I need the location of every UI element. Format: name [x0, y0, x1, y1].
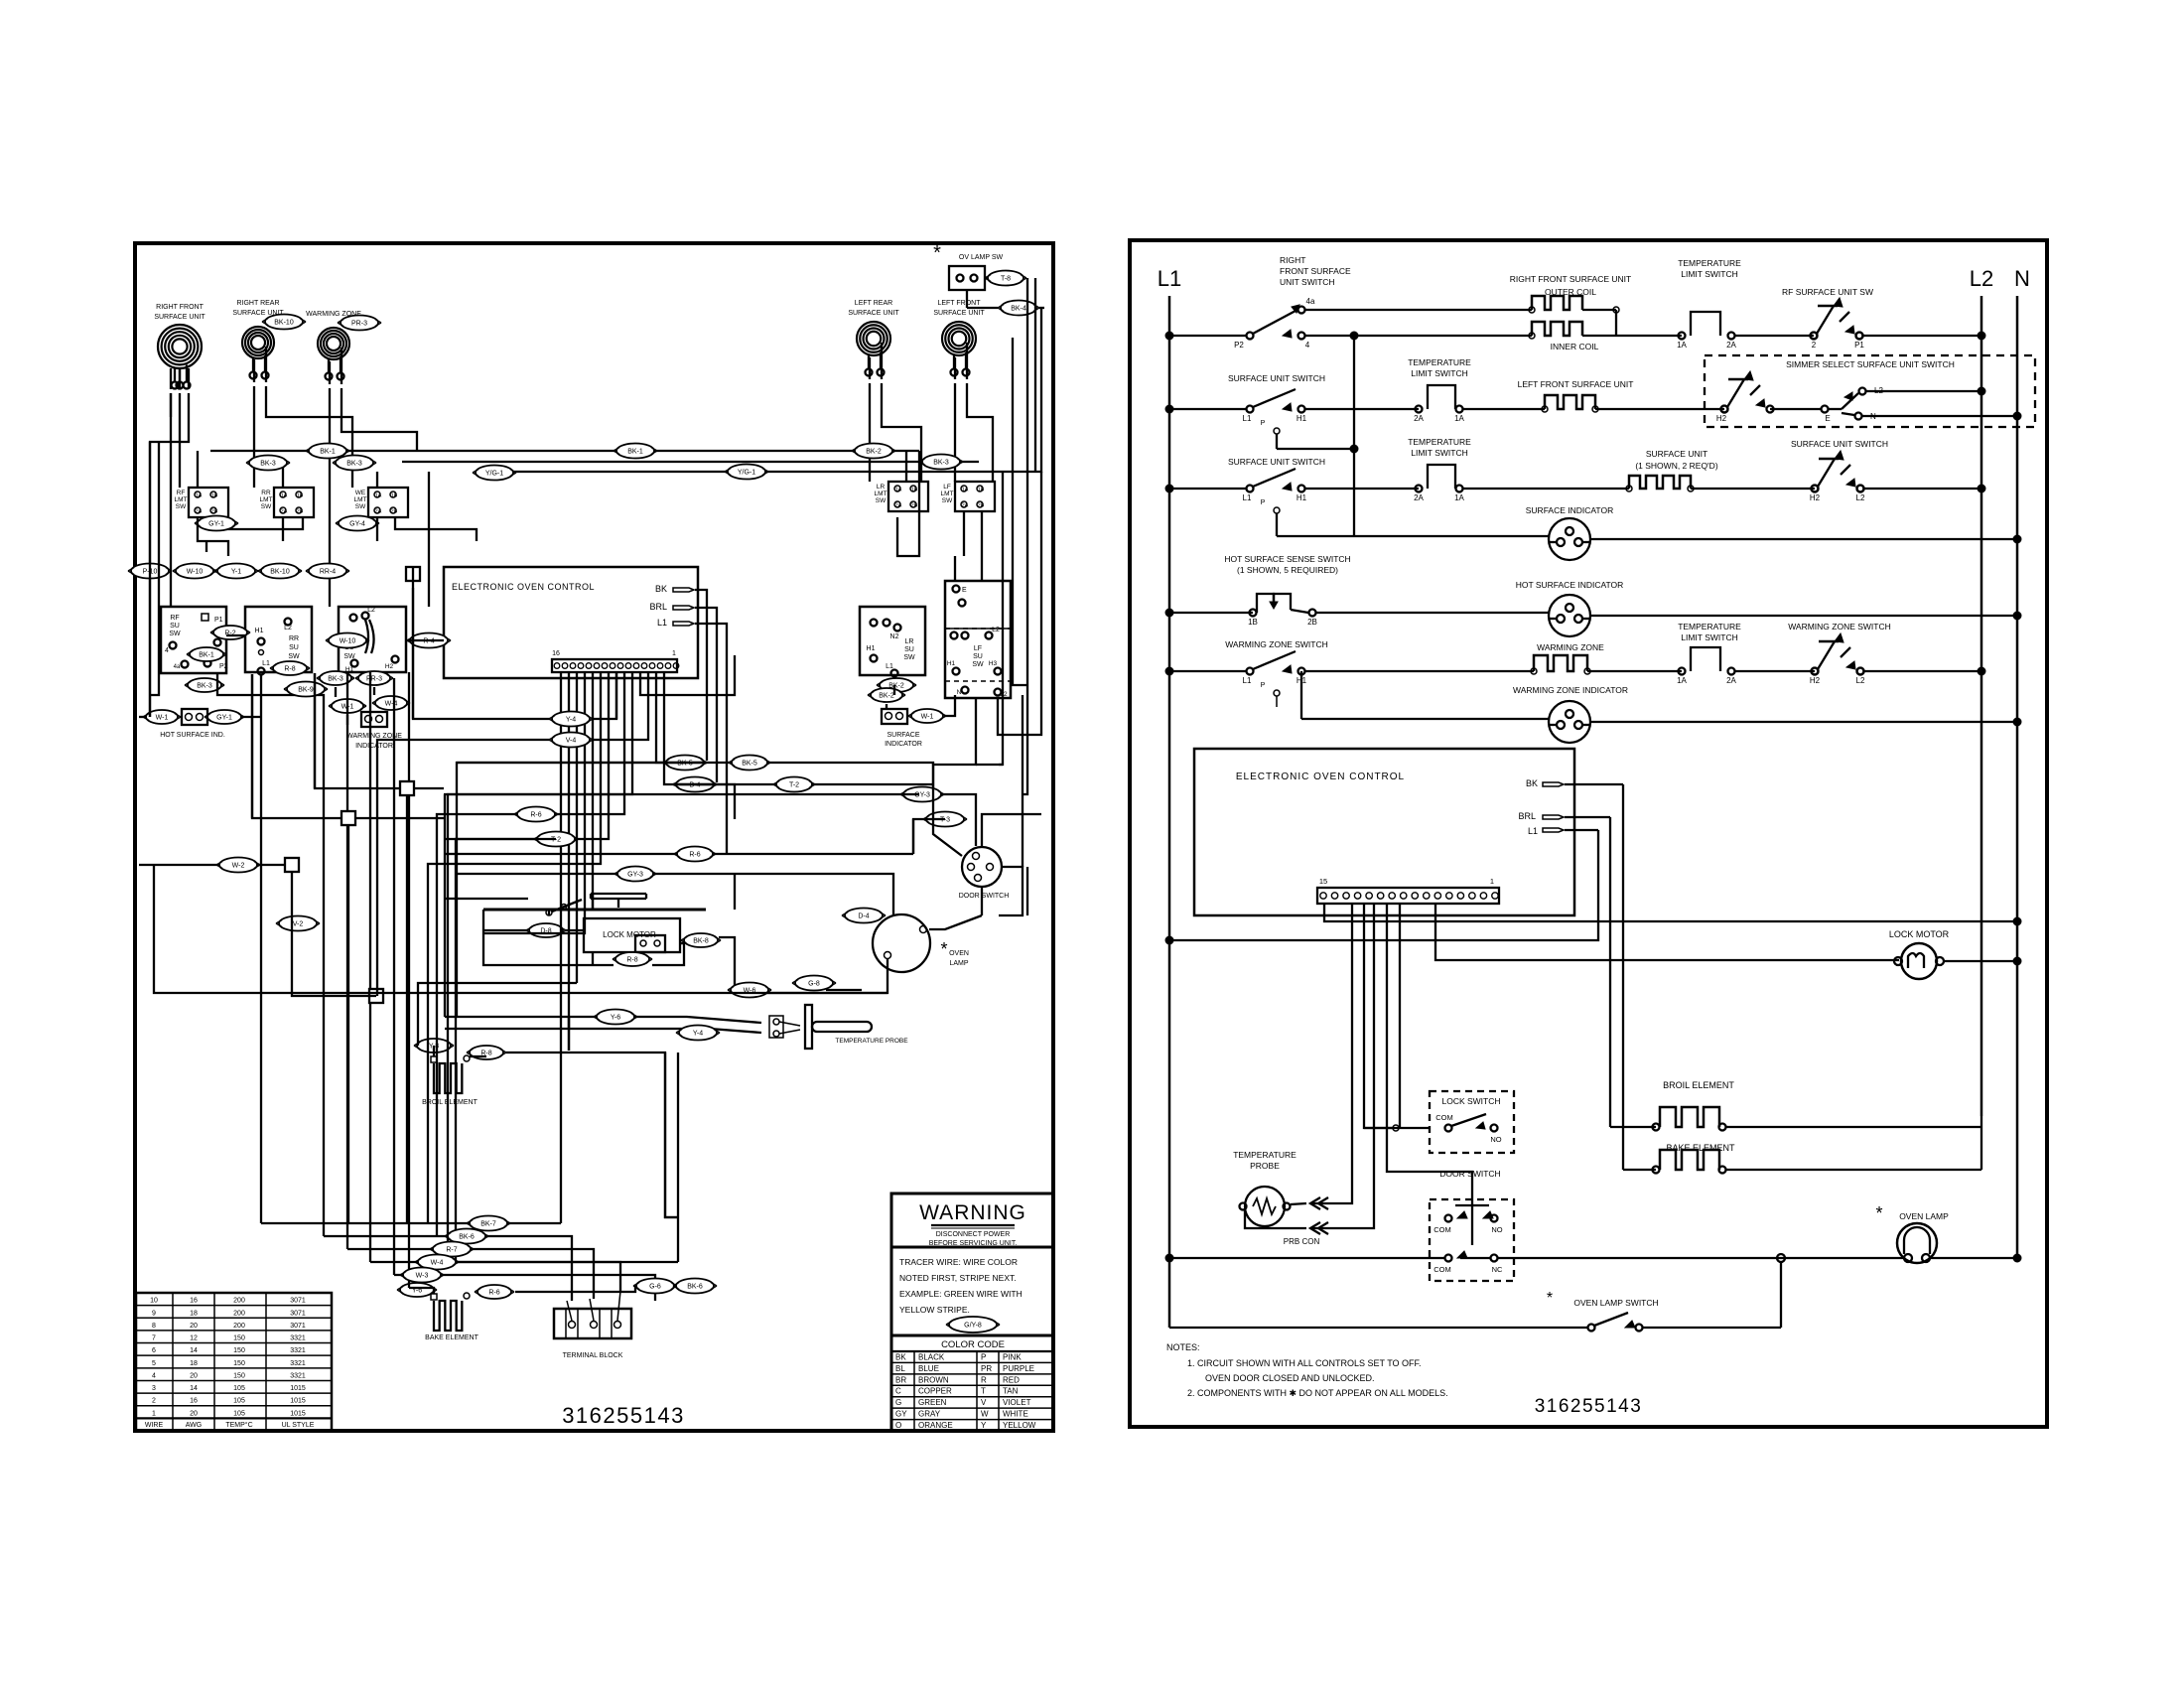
svg-text:1: 1	[1490, 877, 1494, 886]
svg-text:GY: GY	[895, 1410, 907, 1419]
svg-text:TERMINAL BLOCK: TERMINAL BLOCK	[563, 1352, 623, 1359]
svg-text:OV LAMP SW: OV LAMP SW	[959, 254, 1004, 261]
svg-text:105: 105	[233, 1410, 245, 1417]
svg-text:L1: L1	[262, 660, 270, 667]
svg-text:NO: NO	[1491, 1225, 1502, 1234]
svg-text:SURFACE UNIT SWITCH: SURFACE UNIT SWITCH	[1228, 457, 1325, 467]
svg-text:LMT: LMT	[354, 496, 367, 503]
svg-text:RF: RF	[170, 615, 179, 622]
svg-text:BK-2: BK-2	[866, 449, 882, 456]
svg-text:RIGHT FRONT: RIGHT FRONT	[156, 304, 204, 311]
svg-text:4a: 4a	[1306, 297, 1315, 306]
svg-text:1B: 1B	[391, 493, 398, 499]
svg-text:R-6: R-6	[689, 852, 700, 859]
svg-text:L2: L2	[1856, 676, 1865, 685]
svg-text:OVEN DOOR CLOSED AND UNLOCKED.: OVEN DOOR CLOSED AND UNLOCKED.	[1205, 1373, 1375, 1383]
svg-text:2B: 2B	[911, 503, 918, 509]
svg-text:BLACK: BLACK	[918, 1352, 945, 1361]
svg-text:V-2: V-2	[293, 921, 304, 928]
svg-text:O: O	[895, 1421, 901, 1430]
svg-text:HOT SURFACE SENSE SWITCH: HOT SURFACE SENSE SWITCH	[1224, 554, 1350, 564]
svg-text:N: N	[2014, 266, 2030, 291]
svg-text:TEMPERATURE: TEMPERATURE	[1678, 622, 1741, 631]
svg-text:LMT: LMT	[875, 491, 887, 497]
svg-text:1A: 1A	[1454, 493, 1464, 502]
svg-text:OVEN LAMP SWITCH: OVEN LAMP SWITCH	[1573, 1298, 1658, 1308]
svg-text:COM: COM	[1433, 1225, 1451, 1234]
svg-text:SURFACE UNIT: SURFACE UNIT	[154, 314, 205, 321]
svg-text:L1: L1	[1243, 676, 1252, 685]
svg-text:RF: RF	[177, 490, 186, 496]
svg-text:EXAMPLE: GREEN WIRE WITH: EXAMPLE: GREEN WIRE WITH	[899, 1289, 1023, 1299]
svg-text:1A: 1A	[962, 488, 969, 493]
svg-text:SW: SW	[942, 497, 953, 504]
svg-text:1B: 1B	[978, 488, 985, 493]
svg-text:1B: 1B	[297, 493, 304, 499]
svg-text:HOT SURFACE IND.: HOT SURFACE IND.	[160, 732, 225, 739]
svg-text:Y/G-1: Y/G-1	[485, 471, 503, 478]
svg-text:20: 20	[190, 1410, 198, 1417]
svg-text:R-7: R-7	[446, 1247, 457, 1254]
svg-text:H1: H1	[345, 666, 354, 673]
svg-text:WHITE: WHITE	[1003, 1410, 1028, 1419]
svg-text:BK-8: BK-8	[693, 938, 709, 945]
svg-text:2: 2	[152, 1398, 156, 1405]
svg-text:150: 150	[233, 1360, 245, 1367]
svg-text:3321: 3321	[290, 1335, 306, 1342]
svg-text:2A: 2A	[962, 503, 969, 509]
svg-text:8: 8	[152, 1323, 156, 1330]
svg-text:1A: 1A	[196, 493, 203, 499]
svg-text:2A: 2A	[895, 503, 902, 509]
svg-text:SURFACE UNIT: SURFACE UNIT	[1646, 449, 1707, 459]
svg-text:1B: 1B	[1248, 618, 1258, 627]
svg-text:H3: H3	[989, 660, 998, 667]
svg-text:G-8: G-8	[808, 981, 820, 988]
svg-text:16: 16	[552, 650, 560, 657]
svg-text:*: *	[933, 242, 941, 264]
svg-text:D-4: D-4	[858, 913, 869, 920]
svg-text:150: 150	[233, 1335, 245, 1342]
svg-text:2A: 2A	[1726, 341, 1736, 350]
svg-text:G: G	[895, 1398, 901, 1407]
svg-text:150: 150	[233, 1347, 245, 1354]
svg-text:BL: BL	[895, 1364, 905, 1373]
svg-text:L1: L1	[1158, 266, 1181, 291]
svg-text:LF: LF	[943, 484, 951, 491]
svg-text:AWG: AWG	[186, 1422, 202, 1429]
svg-text:1A: 1A	[1677, 341, 1687, 350]
svg-text:GY-1: GY-1	[208, 521, 224, 528]
svg-text:1A: 1A	[895, 488, 902, 493]
svg-text:COM: COM	[1435, 1113, 1453, 1122]
svg-text:WARMING ZONE: WARMING ZONE	[1537, 642, 1604, 652]
svg-text:SURFACE UNIT: SURFACE UNIT	[848, 310, 899, 317]
svg-text:BK-1: BK-1	[199, 652, 214, 659]
svg-text:BK: BK	[1526, 778, 1538, 788]
svg-text:LAMP: LAMP	[949, 960, 968, 967]
svg-text:NO: NO	[1490, 1135, 1501, 1144]
svg-text:20: 20	[190, 1372, 198, 1379]
svg-text:12: 12	[190, 1335, 198, 1342]
svg-text:SW: SW	[288, 653, 300, 660]
svg-text:SW: SW	[261, 503, 272, 510]
svg-text:T-8: T-8	[1001, 276, 1011, 283]
svg-text:V-4: V-4	[566, 738, 577, 745]
svg-text:16: 16	[190, 1298, 198, 1305]
svg-text:SW: SW	[355, 503, 366, 510]
svg-text:4: 4	[1305, 341, 1310, 350]
svg-text:H2: H2	[1810, 493, 1821, 502]
svg-text:H1: H1	[1297, 493, 1307, 502]
svg-text:(1 SHOWN, 5 REQUIRED): (1 SHOWN, 5 REQUIRED)	[1237, 565, 1338, 575]
svg-text:6: 6	[152, 1347, 156, 1354]
svg-text:TEMP°C: TEMP°C	[225, 1421, 252, 1429]
svg-text:SURFACE UNIT: SURFACE UNIT	[933, 310, 985, 317]
svg-text:SURFACE UNIT SWITCH: SURFACE UNIT SWITCH	[1228, 373, 1325, 383]
svg-text:GY-1: GY-1	[216, 715, 232, 722]
svg-text:LOCK MOTOR: LOCK MOTOR	[1889, 929, 1950, 939]
svg-text:LEFT FRONT SURFACE UNIT: LEFT FRONT SURFACE UNIT	[1518, 379, 1634, 389]
svg-text:1: 1	[672, 650, 676, 657]
svg-text:T: T	[981, 1387, 986, 1396]
svg-text:BK-1: BK-1	[627, 449, 643, 456]
svg-text:DOOR SWITCH: DOOR SWITCH	[1439, 1169, 1500, 1179]
svg-text:(1 SHOWN, 2 REQ'D): (1 SHOWN, 2 REQ'D)	[1635, 461, 1717, 471]
svg-text:LR: LR	[905, 638, 914, 645]
svg-text:WARMING ZONE INDICATOR: WARMING ZONE INDICATOR	[1513, 685, 1628, 695]
svg-text:N2: N2	[890, 633, 899, 640]
svg-text:L2: L2	[367, 607, 375, 614]
svg-text:2A: 2A	[375, 509, 382, 515]
svg-text:R-8: R-8	[626, 957, 637, 964]
svg-text:P2: P2	[1234, 341, 1244, 350]
svg-text:Y-6: Y-6	[611, 1015, 620, 1022]
svg-text:2B: 2B	[391, 509, 398, 515]
svg-text:*: *	[940, 939, 947, 959]
svg-text:P1: P1	[1854, 341, 1864, 350]
svg-text:3321: 3321	[290, 1347, 306, 1354]
svg-text:ELECTRONIC OVEN CONTROL: ELECTRONIC OVEN CONTROL	[1236, 772, 1405, 782]
svg-text:2A: 2A	[196, 509, 203, 515]
svg-text:P1: P1	[214, 617, 223, 624]
svg-text:RF SURFACE UNIT SW: RF SURFACE UNIT SW	[1782, 287, 1873, 297]
svg-text:P: P	[1261, 499, 1266, 506]
svg-text:LEFT FRONT: LEFT FRONT	[937, 300, 981, 307]
svg-text:2A: 2A	[1726, 676, 1736, 685]
svg-text:3071: 3071	[290, 1298, 306, 1305]
svg-text:P: P	[1261, 682, 1266, 689]
svg-text:SURFACE UNIT SWITCH: SURFACE UNIT SWITCH	[1791, 439, 1888, 449]
svg-text:TEMPERATURE PROBE: TEMPERATURE PROBE	[835, 1038, 908, 1045]
svg-text:Y/G-1: Y/G-1	[738, 470, 755, 477]
svg-text:BLUE: BLUE	[918, 1364, 939, 1373]
svg-text:RIGHT REAR: RIGHT REAR	[236, 300, 279, 307]
svg-text:Y-4: Y-4	[693, 1031, 703, 1038]
svg-text:E: E	[1825, 414, 1830, 423]
svg-text:R: R	[981, 1375, 987, 1384]
svg-text:P2: P2	[219, 663, 228, 670]
svg-text:TRACER WIRE: WIRE COLOR: TRACER WIRE: WIRE COLOR	[899, 1257, 1018, 1267]
svg-text:SU: SU	[973, 653, 983, 660]
svg-text:SW: SW	[972, 661, 984, 668]
svg-text:18: 18	[190, 1310, 198, 1317]
svg-text:R-6: R-6	[488, 1290, 499, 1297]
svg-text:RIGHT FRONT SURFACE UNIT: RIGHT FRONT SURFACE UNIT	[1510, 274, 1631, 284]
svg-text:INNER COIL: INNER COIL	[1551, 342, 1599, 351]
svg-text:BK-9: BK-9	[298, 687, 314, 694]
svg-text:SW: SW	[176, 503, 187, 510]
svg-text:LF: LF	[974, 645, 982, 652]
svg-text:W-4: W-4	[431, 1260, 444, 1267]
svg-text:1: 1	[152, 1410, 156, 1417]
svg-text:316255143: 316255143	[1535, 1396, 1643, 1417]
svg-text:H1: H1	[1297, 414, 1307, 423]
svg-text:1B: 1B	[911, 488, 918, 493]
svg-text:TEMPERATURE: TEMPERATURE	[1233, 1150, 1297, 1160]
svg-text:GREEN: GREEN	[918, 1398, 947, 1407]
svg-text:2B: 2B	[1307, 618, 1317, 627]
svg-text:RED: RED	[1003, 1375, 1020, 1384]
svg-text:G-6: G-6	[649, 1284, 661, 1291]
svg-text:H2: H2	[1810, 676, 1821, 685]
svg-text:PRB CON: PRB CON	[1284, 1237, 1320, 1246]
svg-text:H2: H2	[1716, 414, 1727, 423]
svg-text:H1: H1	[947, 660, 956, 667]
svg-text:BK-10: BK-10	[270, 569, 290, 576]
svg-text:1A: 1A	[1677, 676, 1687, 685]
svg-text:L1: L1	[1528, 826, 1538, 836]
svg-text:ELECTRONIC OVEN CONTROL: ELECTRONIC OVEN CONTROL	[452, 582, 595, 592]
svg-text:INDICATOR: INDICATOR	[355, 743, 393, 750]
svg-text:PR: PR	[981, 1364, 992, 1373]
svg-text:*: *	[1547, 1290, 1553, 1307]
svg-text:W-2: W-2	[232, 863, 245, 870]
svg-text:G/Y-8: G/Y-8	[964, 1323, 982, 1330]
svg-text:BROIL ELEMENT: BROIL ELEMENT	[1663, 1080, 1734, 1090]
svg-text:DISCONNECT POWER: DISCONNECT POWER	[936, 1231, 1011, 1238]
svg-text:BK-3: BK-3	[346, 461, 362, 468]
svg-text:OVEN: OVEN	[949, 950, 969, 957]
svg-text:NOTED FIRST, STRIPE NEXT.: NOTED FIRST, STRIPE NEXT.	[899, 1273, 1017, 1283]
svg-text:105: 105	[233, 1398, 245, 1405]
svg-text:3: 3	[152, 1385, 156, 1392]
svg-text:V: V	[981, 1398, 987, 1407]
svg-text:R-6: R-6	[530, 812, 541, 819]
svg-text:YELLOW: YELLOW	[1003, 1421, 1036, 1430]
svg-text:2B: 2B	[297, 509, 304, 515]
svg-text:105: 105	[233, 1385, 245, 1392]
svg-text:H2: H2	[385, 663, 394, 670]
svg-text:2B: 2B	[978, 503, 985, 509]
svg-text:3071: 3071	[290, 1310, 306, 1317]
svg-text:3321: 3321	[290, 1372, 306, 1379]
svg-text:PURPLE: PURPLE	[1003, 1364, 1034, 1373]
svg-text:RR: RR	[261, 490, 271, 496]
svg-text:200: 200	[233, 1323, 245, 1330]
svg-text:VIOLET: VIOLET	[1003, 1398, 1031, 1407]
svg-text:COLOR CODE: COLOR CODE	[941, 1339, 1005, 1350]
svg-text:1A: 1A	[281, 493, 288, 499]
svg-text:SURFACE INDICATOR: SURFACE INDICATOR	[1526, 505, 1613, 515]
svg-text:BK: BK	[895, 1352, 906, 1361]
svg-text:T-2: T-2	[789, 782, 799, 789]
svg-text:PROBE: PROBE	[1250, 1161, 1280, 1171]
svg-text:5: 5	[152, 1360, 156, 1367]
svg-text:14: 14	[190, 1385, 198, 1392]
svg-text:YELLOW STRIPE.: YELLOW STRIPE.	[899, 1305, 970, 1315]
svg-text:LIMIT SWITCH: LIMIT SWITCH	[1411, 368, 1467, 378]
svg-text:L2: L2	[1970, 266, 1993, 291]
svg-text:LMT: LMT	[941, 491, 954, 497]
svg-text:W-10: W-10	[187, 569, 204, 576]
svg-text:COM: COM	[1433, 1265, 1451, 1274]
svg-text:BK-2: BK-2	[879, 693, 894, 700]
svg-text:UL STYLE: UL STYLE	[282, 1422, 315, 1429]
svg-text:10: 10	[150, 1298, 158, 1305]
svg-text:BK-10: BK-10	[274, 320, 294, 327]
svg-text:TEMPERATURE: TEMPERATURE	[1678, 258, 1741, 268]
svg-text:COPPER: COPPER	[918, 1387, 952, 1396]
svg-text:W-10: W-10	[340, 638, 356, 645]
svg-text:BK-7: BK-7	[480, 1221, 496, 1228]
svg-text:W-1: W-1	[156, 715, 169, 722]
svg-text:RR-4: RR-4	[320, 569, 336, 576]
svg-text:18: 18	[190, 1360, 198, 1367]
svg-text:SU: SU	[904, 646, 914, 653]
svg-text:SU: SU	[170, 623, 180, 630]
svg-text:LOCK SWITCH: LOCK SWITCH	[1441, 1096, 1500, 1106]
svg-text:N: N	[957, 689, 962, 696]
svg-text:FRONT SURFACE: FRONT SURFACE	[1280, 266, 1351, 276]
svg-text:BK-4: BK-4	[1011, 306, 1026, 313]
svg-text:GY-4: GY-4	[349, 521, 365, 528]
svg-text:L2: L2	[1000, 691, 1008, 698]
svg-text:2: 2	[1812, 341, 1817, 350]
svg-text:E: E	[962, 587, 967, 594]
svg-text:WARMING ZONE SWITCH: WARMING ZONE SWITCH	[1225, 639, 1328, 649]
svg-text:L2: L2	[1856, 493, 1865, 502]
svg-text:BK-1: BK-1	[320, 449, 336, 456]
svg-text:LEFT REAR: LEFT REAR	[855, 300, 892, 307]
svg-text:R-8: R-8	[284, 666, 295, 673]
svg-text:200: 200	[233, 1298, 245, 1305]
svg-text:H1: H1	[255, 628, 264, 634]
svg-text:WARNING: WARNING	[919, 1201, 1026, 1224]
svg-text:20: 20	[190, 1323, 198, 1330]
svg-text:PR-3: PR-3	[366, 676, 382, 683]
svg-text:P: P	[1261, 420, 1266, 427]
svg-text:INDICATOR: INDICATOR	[885, 741, 922, 748]
svg-text:1. CIRCUIT SHOWN WITH ALL CO: 1. CIRCUIT SHOWN WITH ALL CONTROLS SET T…	[1187, 1358, 1422, 1368]
svg-text:BK-5: BK-5	[742, 761, 757, 768]
svg-text:Y: Y	[981, 1421, 987, 1430]
svg-text:L1: L1	[1243, 493, 1252, 502]
svg-text:SW: SW	[876, 497, 887, 504]
svg-text:2. COMPONENTS WITH ✱ DO NO: 2. COMPONENTS WITH ✱ DO NOT APPEAR ON AL…	[1187, 1388, 1448, 1398]
svg-text:BAKE ELEMENT: BAKE ELEMENT	[425, 1334, 478, 1341]
svg-text:SU: SU	[289, 644, 299, 651]
svg-text:4a: 4a	[174, 664, 181, 670]
svg-text:NC: NC	[1492, 1265, 1503, 1274]
svg-text:1015: 1015	[290, 1398, 306, 1405]
svg-text:L1: L1	[1243, 414, 1252, 423]
svg-text:BRL: BRL	[1518, 811, 1536, 821]
svg-text:UNIT SWITCH: UNIT SWITCH	[1280, 277, 1335, 287]
svg-text:OVEN LAMP: OVEN LAMP	[1899, 1211, 1949, 1221]
svg-text:2A: 2A	[281, 509, 288, 515]
svg-text:15: 15	[1319, 877, 1327, 886]
svg-text:LMT: LMT	[260, 496, 273, 503]
svg-text:1015: 1015	[290, 1385, 306, 1392]
svg-text:BK-3: BK-3	[197, 683, 212, 690]
svg-text:2B: 2B	[211, 509, 218, 515]
svg-text:PINK: PINK	[1003, 1352, 1022, 1361]
svg-text:L2: L2	[992, 627, 1000, 633]
svg-text:TAN: TAN	[1003, 1387, 1019, 1396]
svg-text:LIMIT SWITCH: LIMIT SWITCH	[1681, 269, 1737, 279]
svg-text:H1: H1	[867, 645, 876, 652]
svg-text:GRAY: GRAY	[918, 1410, 941, 1419]
svg-text:BROIL ELEMENT: BROIL ELEMENT	[422, 1099, 478, 1106]
svg-text:BK-6: BK-6	[687, 1284, 703, 1291]
svg-text:BK-6: BK-6	[459, 1234, 475, 1241]
svg-text:LIMIT SWITCH: LIMIT SWITCH	[1411, 448, 1467, 458]
svg-text:LR: LR	[877, 484, 886, 491]
svg-text:BROWN: BROWN	[918, 1375, 949, 1384]
svg-text:WIRE: WIRE	[145, 1422, 164, 1429]
svg-text:*: *	[1875, 1203, 1882, 1223]
svg-text:SW: SW	[903, 654, 915, 661]
svg-text:RIGHT: RIGHT	[1280, 255, 1305, 265]
svg-text:SURFACE: SURFACE	[887, 732, 919, 739]
svg-text:BK-3: BK-3	[328, 676, 343, 683]
svg-text:LMT: LMT	[175, 496, 188, 503]
svg-text:SW: SW	[169, 631, 181, 637]
svg-text:150: 150	[233, 1372, 245, 1379]
svg-text:BRL: BRL	[649, 602, 667, 612]
svg-text:NOTES:: NOTES:	[1166, 1342, 1200, 1352]
svg-text:L1: L1	[657, 618, 667, 628]
svg-text:2A: 2A	[1414, 414, 1424, 423]
svg-text:Y-1: Y-1	[231, 569, 241, 576]
svg-text:Y-4: Y-4	[566, 717, 576, 724]
svg-text:1A: 1A	[375, 493, 382, 499]
svg-text:DOOR SWITCH: DOOR SWITCH	[959, 893, 1010, 900]
svg-text:9: 9	[152, 1310, 156, 1317]
svg-text:4: 4	[152, 1372, 156, 1379]
svg-text:3321: 3321	[290, 1360, 306, 1367]
svg-text:TEMPERATURE: TEMPERATURE	[1408, 357, 1471, 367]
svg-text:P: P	[981, 1352, 986, 1361]
svg-text:C: C	[895, 1387, 901, 1396]
svg-text:14: 14	[190, 1347, 198, 1354]
svg-text:BK-3: BK-3	[260, 461, 276, 468]
svg-text:W-3: W-3	[416, 1273, 429, 1280]
svg-text:HOT SURFACE INDICATOR: HOT SURFACE INDICATOR	[1516, 580, 1624, 590]
svg-text:W-4: W-4	[385, 701, 398, 708]
svg-text:WE: WE	[355, 490, 366, 496]
svg-text:GY-3: GY-3	[627, 872, 643, 879]
svg-text:4: 4	[165, 647, 169, 654]
svg-text:W-1: W-1	[921, 714, 934, 721]
svg-text:16: 16	[190, 1398, 198, 1405]
svg-text:TEMPERATURE: TEMPERATURE	[1408, 437, 1471, 447]
svg-text:BR: BR	[895, 1375, 906, 1384]
svg-text:ORANGE: ORANGE	[918, 1421, 953, 1430]
svg-text:RR: RR	[289, 635, 299, 642]
svg-text:3071: 3071	[290, 1323, 306, 1330]
